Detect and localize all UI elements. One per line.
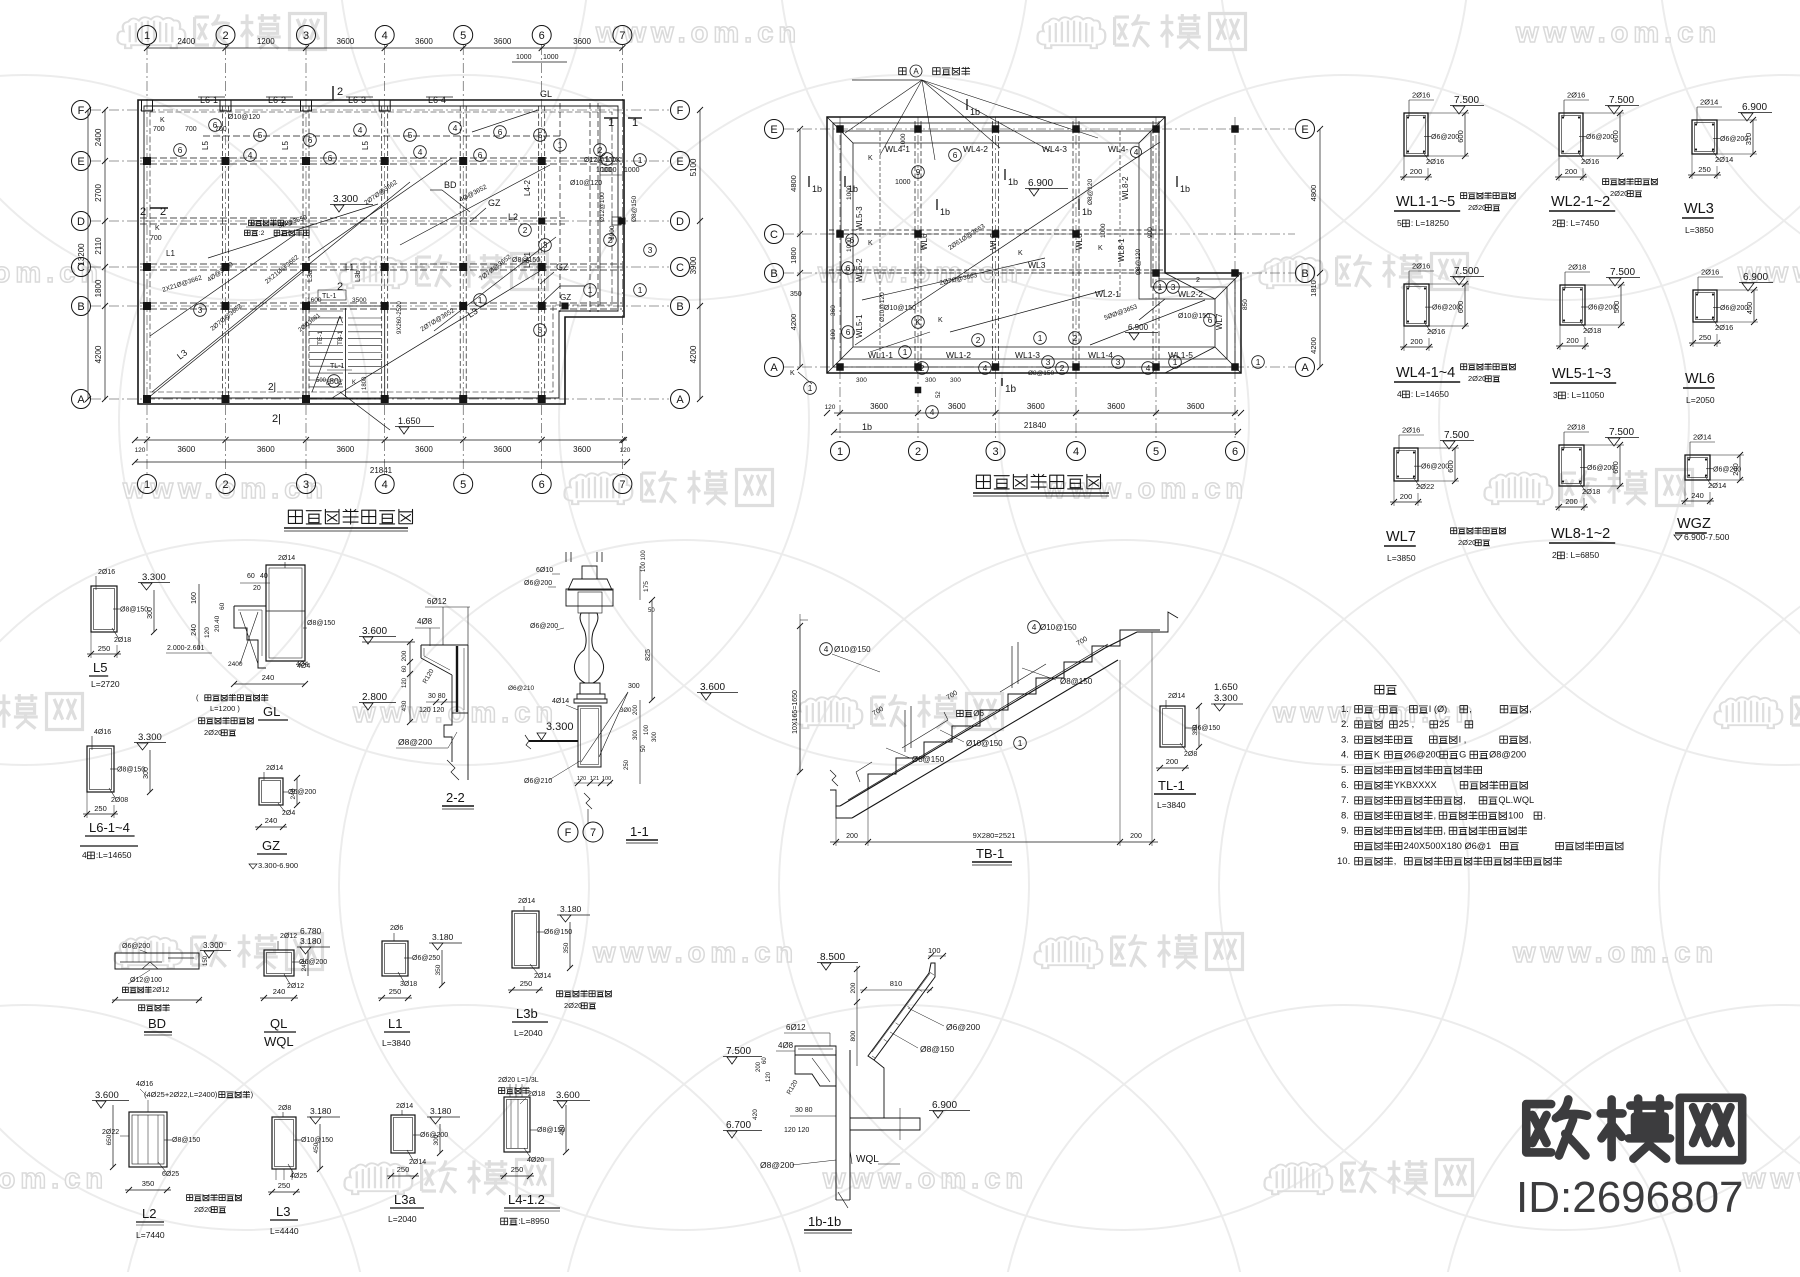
svg-text:Ø8@150: Ø8@150 [1060, 677, 1093, 686]
svg-text:1000: 1000 [846, 185, 853, 200]
svg-text:D: D [676, 216, 684, 228]
svg-text:3.600: 3.600 [700, 682, 725, 693]
svg-text:1b: 1b [1008, 177, 1018, 187]
svg-text:4: 4 [824, 644, 829, 654]
svg-text:K: K [155, 225, 160, 232]
roof plan circled numbers bottom [842, 326, 855, 339]
svg-text:2Ø20: 2Ø20 [564, 1001, 582, 1010]
svg-text:2Ø20: 2Ø20 [1468, 203, 1486, 212]
beam section WL2-1~2 [1559, 113, 1583, 156]
svg-text:3600: 3600 [494, 37, 512, 46]
svg-text:1b-1b: 1b-1b [808, 1214, 841, 1229]
svg-text:TL-1: TL-1 [330, 363, 345, 370]
svg-text:B: B [1301, 268, 1308, 280]
floor plan exterior wall outline [138, 100, 624, 404]
svg-text:WL8-1~2: WL8-1~2 [1551, 526, 1610, 542]
svg-text:9X260-2520: 9X260-2520 [397, 301, 403, 334]
svg-text:3600: 3600 [573, 37, 591, 46]
svg-text:2|: 2| [268, 382, 276, 393]
svg-text:www.om.cn: www.om.cn [1742, 1163, 1800, 1195]
svg-text:2: 2 [608, 235, 613, 245]
svg-text:Ø12@100: Ø12@100 [599, 192, 606, 222]
svg-text:GZ: GZ [488, 198, 501, 208]
svg-text:1000: 1000 [895, 179, 911, 186]
svg-text:3600: 3600 [948, 402, 966, 411]
svg-text:600: 600 [1456, 301, 1465, 314]
svg-text:3500: 3500 [352, 297, 367, 304]
svg-text:3600: 3600 [415, 445, 433, 454]
svg-text:1: 1 [638, 285, 643, 295]
svg-text:5: 5 [538, 325, 543, 335]
roof plan left dimensions [789, 126, 803, 370]
svg-text:1: 1 [808, 383, 813, 393]
floor plan axis bubbles right F-A [671, 101, 690, 409]
svg-text:700: 700 [150, 235, 162, 242]
svg-text:700: 700 [153, 126, 165, 133]
svg-text:3.300: 3.300 [142, 572, 166, 583]
svg-text:Ø8@120: Ø8@120 [1135, 249, 1142, 275]
svg-text:TB-1: TB-1 [976, 846, 1004, 861]
svg-text:4: 4 [1134, 147, 1139, 157]
svg-text:240X500X180 Ø6@1: 240X500X180 Ø6@1 [1404, 841, 1492, 851]
svg-text:2.: 2. [1341, 719, 1349, 730]
svg-text:WGZ: WGZ [1677, 516, 1711, 532]
svg-text:6.700: 6.700 [726, 1120, 751, 1131]
svg-text:4800: 4800 [1309, 185, 1318, 202]
svg-text:1000: 1000 [543, 54, 559, 61]
floor plan top dimension row [144, 37, 625, 62]
svg-text:WL4-: WL4- [1108, 144, 1128, 154]
svg-text:2: 2 [1552, 550, 1557, 560]
svg-text:6.900: 6.900 [1742, 102, 1767, 113]
stair section TB-1 reinforcement lines [848, 642, 1108, 800]
svg-text:E: E [676, 156, 683, 168]
svg-text:C: C [770, 229, 778, 241]
svg-text:2-2: 2-2 [446, 790, 465, 805]
svg-text:L=2040: L=2040 [514, 1028, 543, 1038]
svg-text:3600: 3600 [1027, 402, 1045, 411]
svg-text:120: 120 [577, 776, 586, 782]
svg-text:3600: 3600 [336, 445, 354, 454]
svg-text:2Ø20: 2Ø20 [1610, 189, 1628, 198]
svg-text:4: 4 [382, 30, 388, 42]
svg-text:600: 600 [1611, 461, 1620, 474]
svg-text:2: 2 [976, 335, 981, 345]
svg-text:6: 6 [1232, 446, 1238, 458]
svg-text:3.300: 3.300 [1214, 693, 1238, 704]
svg-text:1000: 1000 [900, 133, 907, 148]
svg-text:1: 1 [1173, 357, 1178, 367]
svg-text:7.500: 7.500 [1454, 266, 1479, 277]
svg-text:1000: 1000 [516, 54, 532, 61]
svg-text:6: 6 [539, 479, 545, 491]
svg-text:6: 6 [953, 150, 958, 160]
svg-text:200: 200 [401, 650, 408, 661]
svg-text::: : [1411, 218, 1413, 228]
svg-text:L3b: L3b [355, 270, 362, 282]
svg-text:2Ø14: 2Ø14 [1715, 155, 1733, 164]
svg-text:QL: QL [270, 1016, 287, 1031]
svg-text:100: 100 [602, 776, 611, 782]
svg-text:6: 6 [478, 150, 483, 160]
svg-text::L=14650: :L=14650 [96, 850, 132, 860]
stair section TB-1 left dimension [792, 614, 1140, 775]
beam section WL6 [1693, 290, 1717, 322]
floor plan slab reinforcement diagonal callouts [148, 110, 556, 398]
svg-text:825: 825 [645, 649, 652, 661]
svg-text:50: 50 [641, 745, 647, 752]
svg-text:2.800: 2.800 [362, 692, 387, 703]
svg-text:40: 40 [260, 573, 268, 580]
svg-text:4200: 4200 [94, 345, 103, 363]
svg-text:1.650: 1.650 [1214, 682, 1238, 693]
svg-text:200: 200 [1400, 492, 1413, 501]
svg-text:1: 1 [144, 30, 150, 42]
svg-text:www.om.cn: www.om.cn [592, 937, 798, 969]
beam section WL8-1~2 [1559, 445, 1584, 486]
svg-text:300: 300 [925, 377, 936, 384]
svg-text:6: 6 [846, 327, 851, 337]
svg-text:Ø6@200,: Ø6@200, [1404, 750, 1443, 760]
svg-text:L=7450: L=7450 [1571, 218, 1600, 228]
svg-text:5: 5 [258, 130, 263, 140]
svg-text:A: A [770, 362, 778, 374]
svg-text:5: 5 [1153, 446, 1159, 458]
svg-text:350: 350 [1192, 724, 1199, 735]
svg-text:3.600: 3.600 [362, 626, 387, 637]
roof plan slab diagonals [855, 142, 1205, 352]
svg-text:60: 60 [762, 1057, 768, 1064]
svg-text:2Ø16: 2Ø16 [1701, 268, 1719, 277]
svg-text:WL1-1~5: WL1-1~5 [1396, 194, 1455, 210]
svg-text:1.650: 1.650 [398, 416, 421, 426]
svg-text:3.180: 3.180 [560, 904, 582, 914]
svg-text:1: 1 [1038, 333, 1043, 343]
svg-text:Ø8@150: Ø8@150 [631, 196, 638, 222]
svg-text:L=7440: L=7440 [136, 1230, 165, 1240]
svg-text:Ø8@120: Ø8@120 [1087, 179, 1094, 205]
svg-text:L3: L3 [276, 1204, 290, 1219]
svg-text:3.300: 3.300 [138, 732, 162, 743]
svg-text:2400: 2400 [94, 128, 103, 146]
roof plan column squares [836, 125, 1239, 393]
svg-text:B: B [676, 301, 683, 313]
svg-text:350: 350 [563, 942, 570, 953]
svg-text:L5: L5 [93, 660, 107, 675]
svg-text:K: K [616, 157, 621, 164]
svg-text:3: 3 [992, 446, 998, 458]
svg-text:3.300: 3.300 [333, 194, 358, 205]
svg-text:2.000-2.601: 2.000-2.601 [167, 645, 204, 652]
svg-text:Ø12@100: Ø12@100 [130, 977, 162, 984]
detail L4-1.2 section [498, 1077, 590, 1226]
svg-text:1000: 1000 [1100, 223, 1107, 238]
svg-text:2Ø16: 2Ø16 [1402, 426, 1420, 435]
svg-text:3Ø0: 3Ø0 [620, 708, 632, 714]
svg-text:1000: 1000 [624, 167, 640, 174]
stair section TB-1 annotation labels [820, 643, 833, 656]
svg-text:4Ø20: 4Ø20 [527, 1157, 544, 1164]
svg-text:6Ø12: 6Ø12 [786, 1023, 806, 1032]
svg-text:2Ø18: 2Ø18 [114, 637, 131, 644]
svg-text:Ø6@200: Ø6@200 [530, 623, 558, 630]
floor plan bottom dimension rows [132, 437, 631, 475]
svg-text:K: K [790, 370, 795, 377]
svg-text:5: 5 [408, 130, 413, 140]
svg-text:4: 4 [930, 407, 935, 417]
svg-text:2: 2 [1073, 333, 1078, 343]
svg-text:2Ø6: 2Ø6 [390, 925, 403, 932]
svg-text:9.: 9. [1341, 826, 1349, 837]
svg-text:Ø10@120: Ø10@120 [228, 114, 260, 121]
svg-text:Ø8@150: Ø8@150 [920, 1044, 954, 1054]
svg-text:WL6: WL6 [1685, 371, 1715, 387]
svg-text:120: 120 [766, 1071, 772, 1082]
floor plan right dimension column [689, 107, 703, 402]
svg-text:30 80: 30 80 [428, 693, 446, 700]
svg-text:60: 60 [402, 665, 408, 672]
svg-text:200: 200 [1566, 336, 1579, 345]
svg-text:160: 160 [191, 592, 198, 604]
svg-text:1b: 1b [970, 107, 980, 117]
svg-text:300: 300 [652, 731, 658, 742]
svg-text:2Ø16: 2Ø16 [1427, 327, 1445, 336]
svg-text:L2: L2 [508, 212, 518, 222]
svg-text:3: 3 [1046, 357, 1051, 367]
detail QL WQL section [260, 926, 330, 1049]
svg-text:5.: 5. [1341, 765, 1349, 776]
svg-text:20: 20 [285, 220, 293, 227]
svg-text:4Ø8: 4Ø8 [778, 1041, 794, 1050]
svg-text:Ø6@200: Ø6@200 [524, 580, 552, 587]
svg-text:2Ø18: 2Ø18 [1583, 326, 1601, 335]
svg-text:2Ø16: 2Ø16 [1412, 262, 1430, 271]
detail GL inverted tee beam [166, 555, 335, 720]
svg-text:www.om.cn: www.om.cn [1515, 17, 1721, 49]
svg-text:6Ø10: 6Ø10 [536, 567, 553, 574]
svg-text:G: G [1459, 750, 1466, 760]
svg-text:300: 300 [633, 729, 639, 740]
svg-text:WL7: WL7 [1386, 529, 1416, 545]
svg-text:3.180: 3.180 [432, 932, 454, 942]
svg-text:,: , [1394, 856, 1397, 866]
svg-text:I (Ø): I (Ø) [1429, 704, 1447, 714]
svg-text:4Ø4: 4Ø4 [296, 661, 309, 668]
svg-text:Ø8@200: Ø8@200 [760, 1160, 794, 1170]
svg-text:3900: 3900 [689, 256, 698, 274]
svg-text:420: 420 [752, 1109, 759, 1120]
svg-text:6.: 6. [1341, 780, 1349, 791]
svg-text:250: 250 [94, 804, 107, 813]
svg-text:Ø10@150: Ø10@150 [1040, 623, 1077, 632]
svg-text:20.40: 20.40 [214, 615, 221, 632]
svg-text:6: 6 [539, 30, 545, 42]
beam section WGZ [1685, 455, 1710, 480]
svg-text:4: 4 [382, 479, 388, 491]
svg-text:L1: L1 [166, 249, 175, 258]
stair section TB-1 flight outline [830, 612, 1178, 818]
svg-text:150: 150 [203, 955, 209, 966]
svg-text:3.300-6.900: 3.300-6.900 [258, 861, 298, 870]
svg-text:www.om.cn: www.om.cn [1512, 937, 1718, 969]
svg-text:250: 250 [1698, 165, 1711, 174]
svg-text:WL8-2: WL8-2 [1121, 176, 1130, 200]
svg-text:Ø10@120: Ø10@120 [570, 180, 602, 187]
svg-text:60: 60 [219, 602, 226, 610]
svg-text:13200: 13200 [77, 243, 86, 266]
svg-text:Ø6@200: Ø6@200 [1431, 134, 1459, 141]
svg-text:120: 120 [135, 447, 146, 454]
svg-text:GZ: GZ [560, 293, 571, 302]
svg-text:Ø8@200: Ø8@200 [398, 737, 432, 747]
svg-text:Ø8@150: Ø8@150 [912, 755, 945, 764]
svg-text:Ø10@150: Ø10@150 [884, 305, 916, 312]
svg-text:1: 1 [588, 285, 593, 295]
svg-text:250: 250 [98, 644, 111, 653]
svg-text:4Ø25: 4Ø25 [290, 1173, 307, 1180]
svg-text:6: 6 [850, 235, 855, 245]
floor plan note about slab bottom [249, 220, 255, 225]
svg-text:,: , [1433, 810, 1436, 820]
svg-text:250: 250 [511, 1165, 524, 1174]
svg-text:7: 7 [619, 479, 625, 491]
detail L1 section [378, 925, 462, 1048]
svg-text::2: :2 [259, 230, 265, 237]
svg-text:,: , [1529, 734, 1532, 744]
svg-text:7.500: 7.500 [1454, 95, 1479, 106]
svg-text:E: E [77, 156, 84, 168]
svg-text:Ø6@210: Ø6@210 [524, 778, 552, 785]
beam section WL1-1~5 [1404, 113, 1428, 156]
svg-text:2Ø14: 2Ø14 [396, 1103, 413, 1110]
svg-text:3600: 3600 [1187, 402, 1205, 411]
svg-text:1: 1 [558, 140, 563, 150]
svg-text:,: , [1443, 826, 1446, 836]
svg-text:L3a: L3a [307, 270, 314, 282]
svg-text:4: 4 [358, 125, 363, 135]
svg-text:300: 300 [628, 683, 640, 690]
svg-text:Ø6@250: Ø6@250 [412, 955, 440, 962]
svg-text:2Ø14: 2Ø14 [409, 1159, 426, 1166]
svg-text:2Ø20: 2Ø20 [1458, 538, 1476, 547]
svg-text:2Ø18: 2Ø18 [1567, 423, 1585, 432]
svg-text:1: 1 [1256, 357, 1261, 367]
svg-text:WL2-1~2: WL2-1~2 [1551, 194, 1610, 210]
svg-text:YKBXXXX: YKBXXXX [1394, 780, 1437, 790]
svg-text:6.900: 6.900 [1743, 272, 1768, 283]
svg-text:L=14650: L=14650 [1416, 389, 1450, 399]
floor plan small circled numbers [209, 119, 222, 132]
svg-text:Ø8@150: Ø8@150 [120, 607, 148, 614]
floor plan left dimension column [77, 107, 108, 402]
svg-text:1: 1 [608, 117, 614, 129]
beam section WL7 [1394, 448, 1418, 481]
svg-text:2: 2 [222, 30, 228, 42]
svg-text:WL4-3: WL4-3 [1042, 144, 1067, 154]
svg-text:1810: 1810 [1309, 280, 1318, 297]
svg-text:100: 100 [928, 946, 941, 955]
svg-text:4Ø14: 4Ø14 [552, 698, 569, 705]
svg-text:C: C [676, 262, 684, 274]
svg-text:3: 3 [303, 30, 309, 42]
svg-text:700: 700 [185, 126, 197, 133]
svg-text:Ø10@120: Ø10@120 [879, 292, 886, 322]
svg-text:D: D [77, 216, 85, 228]
svg-text:2110: 2110 [94, 237, 103, 255]
svg-text:7.500: 7.500 [1609, 95, 1634, 106]
svg-text:,: , [1463, 795, 1466, 805]
roof plan exterior outline [827, 117, 1241, 373]
svg-text:2: 2 [1552, 218, 1557, 228]
svg-text:6Ø25: 6Ø25 [162, 1171, 179, 1178]
svg-text:120: 120 [204, 627, 211, 638]
svg-text:5: 5 [460, 479, 466, 491]
svg-text:WQL: WQL [264, 1034, 294, 1049]
svg-text:240: 240 [1731, 463, 1740, 476]
svg-text:900: 900 [1147, 227, 1154, 238]
svg-text:1: 1 [1158, 282, 1163, 292]
detail L3 section [268, 1105, 340, 1236]
floor plan title [288, 510, 302, 523]
svg-text:L3b: L3b [516, 1006, 538, 1021]
svg-text:3600: 3600 [1107, 402, 1125, 411]
svg-text:240: 240 [1691, 491, 1704, 500]
svg-text:4: 4 [1146, 363, 1151, 373]
svg-text:Ø8@150: Ø8@150 [172, 1137, 200, 1144]
svg-text:2Ø14: 2Ø14 [1168, 693, 1185, 700]
svg-text:2Ø16: 2Ø16 [98, 569, 115, 576]
roof plan interior beam dashed lines [829, 121, 1239, 369]
svg-text:6: 6 [1208, 315, 1213, 325]
svg-text:3600: 3600 [415, 37, 433, 46]
svg-text:300: 300 [856, 377, 867, 384]
svg-text:Ø6@200: Ø6@200 [1720, 305, 1748, 312]
svg-text:Ø12@100: Ø12@100 [584, 157, 616, 164]
svg-text:B: B [770, 268, 777, 280]
svg-text:4Ø8: 4Ø8 [417, 617, 433, 626]
svg-text:Ø6@200: Ø6@200 [1586, 134, 1614, 141]
svg-text:240: 240 [273, 987, 286, 996]
svg-text:300: 300 [950, 377, 961, 384]
svg-text:GZ: GZ [262, 838, 280, 853]
svg-text:3.300: 3.300 [203, 941, 224, 950]
floor plan grid axes A-F horizontal lines [91, 110, 669, 399]
svg-text:3: 3 [1116, 357, 1121, 367]
svg-text:2: 2 [337, 86, 343, 98]
svg-text:6: 6 [846, 263, 851, 273]
svg-text:L=1200 ): L=1200 ) [210, 704, 240, 713]
svg-text:TL-1: TL-1 [1158, 778, 1185, 793]
svg-text:121: 121 [590, 776, 599, 782]
svg-text:3600: 3600 [177, 445, 195, 454]
svg-text:7: 7 [590, 827, 596, 839]
svg-text:2Ø12: 2Ø12 [280, 933, 297, 940]
svg-text:2Ø20 L=1/3L: 2Ø20 L=1/3L [498, 1077, 539, 1084]
svg-text:L=6850: L=6850 [1571, 550, 1600, 560]
svg-text:100 100: 100 100 [641, 550, 647, 572]
roof plan axis bubbles right [1296, 120, 1315, 377]
svg-text:4: 4 [983, 363, 988, 373]
svg-text:WQL: WQL [856, 1154, 879, 1165]
svg-text:Ø6@150: Ø6@150 [544, 929, 572, 936]
svg-text:L=18250: L=18250 [1416, 218, 1450, 228]
svg-text:52: 52 [936, 391, 942, 398]
svg-text:4200: 4200 [789, 314, 798, 331]
svg-text:2Ø14: 2Ø14 [534, 973, 551, 980]
svg-text:2Ø12: 2Ø12 [152, 987, 169, 994]
svg-text:9: 9 [916, 167, 921, 177]
svg-text:250: 250 [397, 1165, 410, 1174]
